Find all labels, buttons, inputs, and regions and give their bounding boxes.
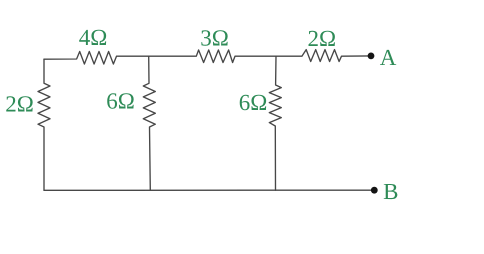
svg-text:B: B xyxy=(383,179,398,204)
svg-text:6Ω: 6Ω xyxy=(106,89,135,114)
svg-text:2Ω: 2Ω xyxy=(308,26,337,51)
svg-text:4Ω: 4Ω xyxy=(79,25,108,50)
svg-text:A: A xyxy=(380,45,397,70)
svg-text:6Ω: 6Ω xyxy=(239,90,268,115)
svg-text:3Ω: 3Ω xyxy=(200,26,229,51)
svg-text:2Ω: 2Ω xyxy=(5,92,34,117)
